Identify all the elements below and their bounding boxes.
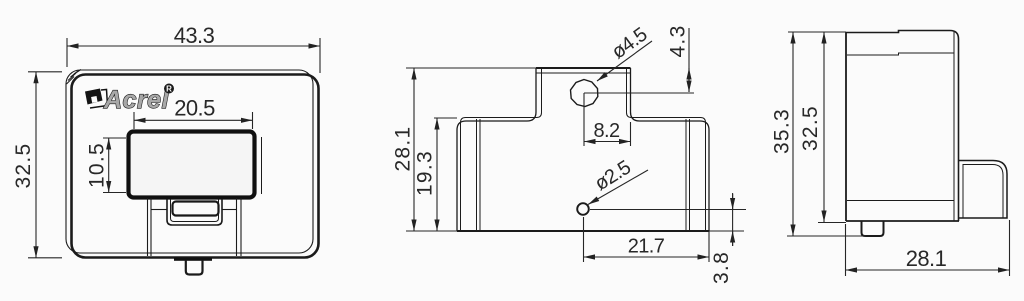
side view left edge <box>845 32 847 221</box>
side connector stub <box>862 221 884 236</box>
top view left inner contour <box>476 119 478 231</box>
lower narrow section right wall <box>236 198 238 256</box>
svg-text:3.8: 3.8 <box>710 251 733 284</box>
Acrel logo icon <box>85 89 108 109</box>
corner hatch marks top-left <box>67 70 82 85</box>
latch tab inner <box>171 199 219 222</box>
side view top edge and right edge <box>846 31 959 222</box>
svg-text:ø2.5: ø2.5 <box>591 156 635 195</box>
front view body inner outline <box>72 75 319 258</box>
dimension 8.2 <box>584 120 631 146</box>
latch handle <box>173 202 219 216</box>
side view right inner line <box>953 32 955 222</box>
side foot inner <box>963 165 1003 219</box>
dimension 4.3 <box>667 24 690 92</box>
svg-text:35.3: 35.3 <box>771 108 794 154</box>
top view top inner line <box>536 72 631 74</box>
front window opening <box>129 132 255 198</box>
mounting hole 4.5 <box>571 80 598 107</box>
svg-text:43.3: 43.3 <box>174 23 215 48</box>
top view left boss wall outer <box>457 68 536 231</box>
dimension 20.5 <box>134 96 253 130</box>
side view top inner band <box>847 53 954 55</box>
side view bottom edge <box>846 220 959 222</box>
svg-text:32.5: 32.5 <box>799 105 822 151</box>
recess floor lines <box>151 209 167 211</box>
svg-text:10.5: 10.5 <box>86 142 109 188</box>
top view right boss wall inner <box>627 68 706 231</box>
svg-text:4.3: 4.3 <box>667 24 690 57</box>
dimension 32.5 side <box>799 32 846 223</box>
window bevel line <box>261 137 263 194</box>
side view bottom inner line <box>847 200 954 202</box>
small hole 2.5 <box>577 203 589 215</box>
leader diameter 4.5 <box>597 23 652 81</box>
registered trademark symbol <box>164 84 174 94</box>
dimension 3.8 <box>590 193 746 284</box>
top view right boss wall outer <box>631 68 710 231</box>
svg-text:8.2: 8.2 <box>593 120 619 142</box>
svg-text:R: R <box>166 85 172 94</box>
svg-text:21.7: 21.7 <box>628 236 665 258</box>
dimension 35.3 <box>771 32 867 236</box>
leader diameter 2.5 <box>588 156 648 204</box>
lower narrow section left wall <box>147 198 149 256</box>
side foot outer <box>959 161 1008 219</box>
dimension 28.1 side <box>846 220 1010 276</box>
dimension 10.5 <box>86 138 127 193</box>
top view top surface <box>536 67 631 69</box>
hole centerlines <box>583 93 585 146</box>
dimension 32.5 left <box>12 72 62 258</box>
top view right inner contour <box>685 119 687 231</box>
bottom connector band <box>174 258 212 261</box>
bottom connector stub <box>186 260 203 275</box>
dimension 19.3 <box>414 118 458 231</box>
svg-text:28.1: 28.1 <box>906 246 947 271</box>
top view bottom edge <box>457 230 709 232</box>
dimension 43.3 <box>67 23 320 73</box>
top view left boss wall inner <box>461 68 542 231</box>
svg-text:32.5: 32.5 <box>12 142 35 188</box>
dimension 28.1 middle <box>392 68 537 231</box>
svg-text:Acrel: Acrel <box>103 86 170 114</box>
svg-text:20.5: 20.5 <box>174 96 215 121</box>
svg-text:19.3: 19.3 <box>414 150 437 196</box>
latch tab outer <box>167 199 222 225</box>
dimension 21.7 <box>584 217 710 262</box>
front view body outer outline <box>66 70 313 253</box>
svg-text:28.1: 28.1 <box>392 125 415 171</box>
